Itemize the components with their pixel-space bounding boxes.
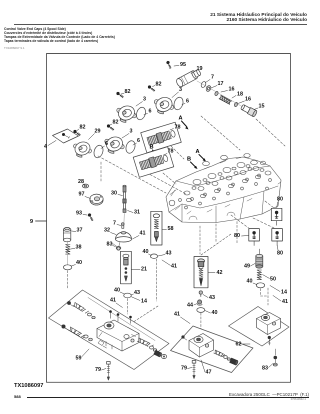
callout 7	[206, 75, 215, 83]
relief box 58	[151, 211, 162, 245]
plate1 washer b	[84, 335, 92, 341]
callout 41 under58	[162, 260, 177, 270]
solenoid cylinder 19	[175, 68, 202, 88]
svg-text:43: 43	[209, 295, 215, 301]
callout 78 b	[164, 149, 174, 156]
callout 17	[211, 81, 224, 88]
callout 3 b	[136, 97, 146, 107]
callout 6 b	[144, 109, 152, 115]
spool box 78 a	[141, 122, 182, 153]
callout 6 a	[182, 99, 189, 105]
svg-text:78: 78	[168, 149, 174, 155]
screw-box 80 a	[271, 208, 282, 225]
callout 97	[79, 192, 91, 199]
section block 62	[257, 313, 281, 335]
dashed link box58 to plate1	[156, 259, 158, 301]
o-ring 40 left	[63, 265, 71, 270]
callout 47	[201, 360, 212, 376]
dashed link body to box80a	[265, 201, 274, 208]
callout 32	[104, 228, 116, 235]
svg-text:29: 29	[95, 129, 101, 135]
dashed link 40 to plate1b	[127, 299, 129, 315]
footer page number	[14, 394, 21, 399]
svg-text:83: 83	[107, 242, 113, 248]
callout 16 lower	[238, 97, 251, 104]
bolt 82 b	[116, 92, 123, 98]
svg-text:32: 32	[104, 228, 110, 234]
title line es	[4, 39, 98, 43]
svg-text:47: 47	[206, 370, 212, 376]
svg-text:18: 18	[237, 92, 243, 98]
callout 38	[71, 245, 82, 251]
callout 83 bottom	[262, 364, 273, 372]
callout 40 under42	[205, 310, 218, 316]
bolt 82 c	[107, 124, 114, 130]
bolt 82 d	[73, 130, 80, 136]
callout 50	[263, 275, 277, 283]
dashed link body to box80c	[253, 218, 274, 228]
svg-text:7: 7	[211, 75, 214, 81]
o-ring 6c	[124, 140, 136, 155]
dashed link chain19 to body left	[201, 116, 240, 150]
figure id small	[4, 46, 25, 50]
o-ring 40 right	[256, 283, 264, 288]
o-ring 40 lower-left	[124, 293, 132, 298]
spring 18	[219, 95, 231, 104]
label B source	[149, 145, 159, 158]
svg-text:40: 40	[114, 288, 120, 294]
callout 58	[162, 226, 173, 232]
svg-text:79: 79	[181, 366, 187, 372]
callout 80 c	[277, 246, 283, 257]
svg-text:14: 14	[141, 299, 147, 305]
svg-text:21: 21	[141, 267, 147, 273]
plate2 screw	[181, 335, 186, 340]
plate1 stud c	[129, 316, 132, 324]
svg-text:82: 82	[125, 89, 131, 95]
header right line 2	[226, 18, 307, 23]
svg-text:50: 50	[270, 277, 276, 283]
manifold plate 2	[171, 326, 254, 373]
o-ring 6a	[172, 96, 184, 111]
callout 37	[72, 228, 83, 234]
svg-text:80: 80	[234, 233, 240, 239]
svg-text:15: 15	[259, 104, 265, 110]
dashed link chain to box58	[98, 156, 186, 194]
svg-text:14: 14	[281, 290, 287, 296]
callout 7 small	[113, 221, 121, 227]
callout 62	[236, 342, 251, 348]
plate1 spring c	[137, 338, 153, 348]
svg-text:80: 80	[277, 251, 283, 257]
dashed link plate1 to box21	[118, 306, 158, 332]
callout 14 lower-left	[132, 297, 148, 305]
svg-text:41: 41	[282, 299, 288, 305]
washer 17	[205, 85, 211, 92]
callout 16 upper	[221, 87, 235, 93]
solenoid 49	[256, 249, 263, 268]
callout 93	[76, 211, 87, 217]
spool box 78 b	[133, 147, 174, 178]
svg-text:43: 43	[134, 290, 140, 296]
svg-text:7: 7	[113, 221, 116, 227]
svg-text:40: 40	[247, 279, 253, 285]
label A source	[178, 116, 188, 130]
ring 83 under21	[112, 243, 120, 250]
callout 29	[89, 129, 101, 140]
dashed link body to box80b	[231, 215, 250, 229]
plate1 plug dark	[154, 350, 162, 357]
bolt 93	[86, 213, 95, 221]
callout 40 under58	[143, 249, 152, 256]
svg-text:40: 40	[143, 249, 149, 255]
title line pt	[4, 35, 115, 39]
callout 41 under42	[174, 312, 190, 324]
link 37-38-40	[66, 241, 68, 265]
callout 82 b	[121, 89, 131, 95]
callout 79 b	[181, 366, 192, 372]
plate1 washer a	[88, 313, 96, 319]
retainer 16 upper	[214, 91, 219, 96]
callout 82 c	[110, 120, 119, 126]
callout 30	[111, 191, 123, 197]
o-ring 6d	[92, 144, 104, 159]
callout 82 a	[153, 82, 162, 88]
callout 31	[128, 210, 141, 216]
svg-text:6: 6	[186, 99, 189, 105]
dashed link caps to left chain	[100, 162, 102, 181]
link rod30 to piston	[123, 214, 126, 228]
plug 15	[240, 104, 257, 118]
svg-text:43: 43	[166, 251, 172, 257]
callout 41 lower-left	[110, 298, 123, 308]
plate1 screw b	[62, 325, 69, 331]
screw 83 bottom	[273, 349, 277, 366]
dashed link 40 to plate2	[200, 313, 202, 338]
spring 38	[66, 245, 70, 255]
spool rod 30	[123, 185, 126, 212]
svg-text:30: 30	[111, 191, 117, 197]
callout 6 d	[101, 141, 108, 149]
cap 37	[63, 227, 70, 241]
callout 9 assembly bracket	[30, 219, 46, 225]
svg-text:58: 58	[168, 226, 174, 232]
end cap 3c	[104, 134, 125, 154]
bolt 82 a	[148, 85, 155, 91]
svg-text:40: 40	[76, 260, 82, 266]
svg-text:82: 82	[156, 82, 162, 88]
dashed link chain19 to body right	[256, 119, 285, 146]
dashed link 40 to plate3	[261, 288, 269, 305]
plate1 end plug	[161, 355, 166, 359]
screw-box 80 c	[272, 229, 283, 246]
footer right text	[229, 392, 309, 397]
bolt 95	[165, 60, 174, 68]
footer rule	[27, 397, 309, 398]
callout 21	[132, 267, 148, 273]
callout 59	[76, 349, 90, 362]
svg-text:17: 17	[218, 81, 224, 87]
end cap 3b	[116, 103, 137, 123]
valve body housing	[166, 154, 281, 223]
callout 78 a	[170, 125, 181, 131]
callout 4	[44, 141, 56, 151]
dashed link body to box42	[200, 226, 231, 255]
svg-text:82: 82	[80, 125, 86, 131]
callout 40 right	[247, 279, 257, 285]
svg-text:93: 93	[76, 211, 82, 217]
callout 41 right	[273, 296, 288, 306]
bolt 79 a	[107, 362, 111, 381]
callout 40 lower-left	[114, 288, 125, 295]
header rule	[14, 23, 307, 26]
plate1 stud a	[109, 310, 112, 318]
callout 15	[254, 104, 265, 110]
o-ring 7	[200, 81, 206, 88]
callout 3 a	[172, 87, 182, 98]
callout 41 mid	[133, 231, 146, 240]
svg-text:B: B	[149, 145, 153, 151]
plate2 plug dark	[230, 358, 239, 365]
dashed link box78a to body	[171, 146, 184, 159]
title line en	[4, 27, 66, 31]
callout 28	[78, 179, 85, 185]
section block 59	[97, 320, 139, 351]
svg-text:95: 95	[180, 62, 186, 68]
end cap 29	[73, 140, 93, 159]
svg-text:38: 38	[76, 245, 82, 251]
manifold plate 3	[229, 307, 290, 347]
callout 79 a	[95, 367, 106, 373]
svg-text:6: 6	[149, 109, 152, 115]
screw-box 80 b	[249, 229, 260, 246]
footer figure number	[14, 383, 43, 389]
callout 82 d	[77, 125, 86, 131]
frame border	[47, 54, 291, 383]
svg-text:40: 40	[212, 310, 218, 316]
piston 32	[116, 232, 132, 242]
svg-text:A: A	[178, 116, 182, 122]
callout 49	[244, 264, 255, 270]
svg-text:41: 41	[171, 264, 177, 270]
callout 19	[191, 66, 203, 74]
plate2 washers	[224, 356, 231, 361]
svg-text:37: 37	[77, 228, 83, 234]
section block 47	[189, 334, 214, 358]
retainer 16 lower	[234, 102, 239, 107]
svg-text:44: 44	[187, 303, 193, 309]
callout 43 under42	[203, 295, 215, 302]
callout 40 left	[72, 260, 83, 266]
svg-text:3: 3	[179, 87, 182, 93]
dashed leaders below body	[216, 222, 237, 244]
callout 43 lower-left	[131, 290, 140, 296]
svg-text:16: 16	[245, 97, 251, 103]
callout 95	[174, 62, 186, 68]
title line fr	[4, 31, 92, 35]
plate1 screw a	[67, 301, 73, 306]
svg-text:83: 83	[262, 366, 268, 372]
bolt 79 b	[192, 361, 196, 379]
mount plate 4	[53, 129, 79, 143]
valve box 42	[194, 257, 208, 288]
manifold plate 1	[49, 290, 170, 370]
svg-text:3: 3	[143, 97, 146, 103]
o-ring 40 under58	[150, 254, 157, 258]
svg-text:49: 49	[244, 264, 250, 270]
o-ring 6b	[135, 106, 147, 121]
svg-text:59: 59	[76, 356, 82, 362]
svg-text:42: 42	[217, 270, 223, 276]
callout 80 b	[234, 233, 248, 239]
label B destination	[187, 157, 198, 170]
svg-text:19: 19	[197, 66, 203, 72]
svg-text:78: 78	[175, 125, 181, 131]
plate1 spring b	[69, 327, 86, 339]
footer right tiny	[291, 398, 306, 401]
plate1 spring a	[73, 302, 89, 314]
svg-text:16: 16	[229, 87, 235, 93]
plate2 spring	[214, 350, 225, 357]
callout 14 right	[270, 286, 287, 296]
valve box 21	[121, 251, 132, 283]
axis line top chain	[197, 81, 243, 107]
callout 3 c	[122, 129, 133, 139]
plate3 bolt below	[268, 336, 271, 345]
label A destination	[195, 149, 206, 162]
callout 43 under58	[158, 251, 172, 257]
callout 42	[208, 270, 222, 276]
dashed link 40 to plate1	[67, 271, 69, 290]
svg-text:3: 3	[130, 129, 133, 135]
svg-text:80: 80	[277, 197, 283, 203]
pin 7 small	[122, 223, 125, 229]
callout 6 c	[133, 138, 140, 145]
callout 18	[232, 92, 243, 99]
svg-text:6: 6	[137, 138, 140, 144]
retainer 43 under42	[199, 291, 202, 297]
spring 50	[257, 270, 261, 280]
washer 28	[82, 184, 88, 188]
plate1 washer c	[150, 346, 157, 351]
svg-text:4: 4	[44, 144, 47, 150]
dashed link box78b to body	[163, 173, 176, 184]
callout 44	[187, 303, 197, 309]
ball seat 44	[197, 300, 202, 305]
svg-text:97: 97	[79, 192, 85, 198]
plate1 stud b	[117, 313, 120, 321]
svg-text:41: 41	[174, 312, 180, 318]
cover 97	[90, 194, 103, 205]
svg-text:9: 9	[30, 219, 34, 225]
svg-text:41: 41	[110, 298, 116, 304]
svg-text:62: 62	[236, 342, 242, 348]
svg-text:41: 41	[140, 231, 146, 237]
callout 80 a	[277, 197, 283, 208]
svg-text:31: 31	[134, 210, 140, 216]
svg-text:6: 6	[105, 141, 108, 147]
ring 83 mid	[116, 242, 121, 250]
svg-text:82: 82	[113, 120, 119, 126]
o-ring 40 under42	[197, 308, 205, 313]
header right line 1	[210, 13, 307, 18]
callout 83 mid	[107, 242, 116, 248]
end cap 3a	[154, 95, 175, 115]
svg-text:79: 79	[95, 367, 101, 373]
